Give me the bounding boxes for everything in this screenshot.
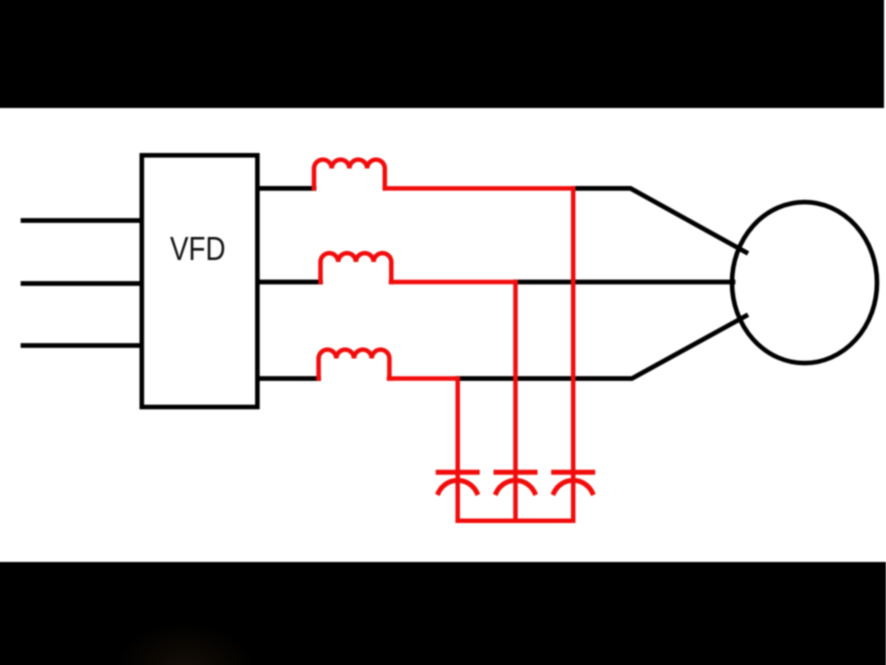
wire node W2 to motor T3 [458,316,746,379]
wire input phase B [23,281,142,286]
wire capacitor common bus [458,518,573,523]
capacitor C2 [496,472,535,520]
wire VFD output V to L2 [257,280,320,285]
inductor L1 [314,160,385,189]
wire node U2 down to C3 [571,188,576,476]
bottom letterbox band [0,562,886,665]
inductor L3 [319,350,390,379]
top letterbox band [0,0,884,108]
capacitor C1 [438,472,477,520]
wire node U2 to motor T1 [573,188,746,252]
svg-text:VFD: VFD [170,230,226,267]
wire node W2 down to C1 [455,379,460,477]
wire node V2 down to C2 [513,282,518,476]
wire VFD output U to L1 [257,186,314,191]
VFD box U1 [142,155,258,407]
wire VFD output W to L3 [257,376,318,381]
wire input phase C [23,343,142,348]
capacitor C3 [554,472,593,520]
faint smudge in bottom band [0,0,1,1]
wire input phase A [23,218,142,223]
wire node V2 to motor T2 [516,280,734,285]
wire L2 out to node V2 [391,280,516,285]
inductor L2 [321,253,392,282]
wire L1 out to node U2 [385,186,573,191]
wire L3 out to node W2 [389,376,458,381]
motor M1 [732,202,877,363]
